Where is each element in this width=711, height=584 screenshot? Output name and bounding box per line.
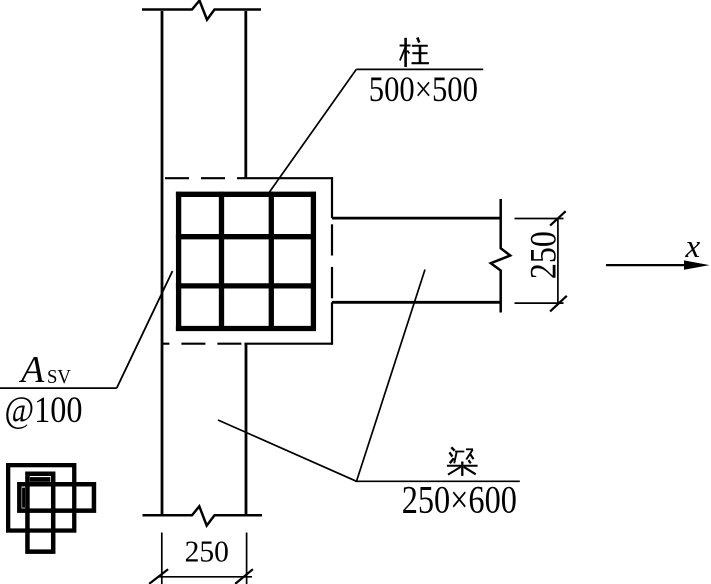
- svg-text:@100: @100: [5, 390, 83, 431]
- svg-text:SV: SV: [47, 366, 71, 388]
- svg-text:250×600: 250×600: [402, 479, 517, 522]
- svg-text:250: 250: [185, 534, 229, 569]
- svg-text:x: x: [685, 229, 701, 265]
- svg-text:500×500: 500×500: [369, 69, 478, 109]
- svg-text:A: A: [18, 349, 45, 391]
- svg-text:250: 250: [524, 231, 565, 279]
